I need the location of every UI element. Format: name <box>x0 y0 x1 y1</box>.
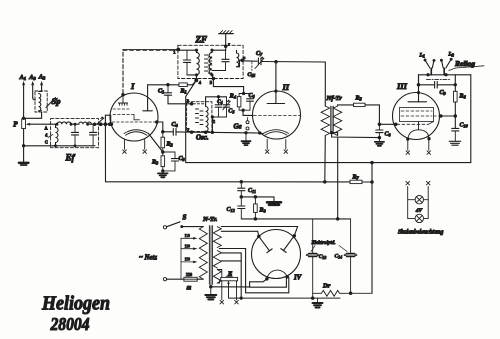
transformer N-Tr heater secondary (zigzag) <box>213 270 221 284</box>
antenna terminal A3 <box>28 74 36 100</box>
wire tuning node down to lower bus <box>104 124 106 182</box>
svg-text:S: S <box>183 214 187 222</box>
svg-text:C4: C4 <box>172 122 179 128</box>
svg-text:d: d <box>45 133 47 138</box>
tube III cathode (dome) <box>406 122 431 141</box>
AVC divider line from terminal 4 down <box>186 80 197 162</box>
wire A1 line down through P to ground <box>23 129 25 162</box>
node below R3 <box>161 169 164 172</box>
speaker pins L2 <box>440 52 454 69</box>
svg-text:A2: A2 <box>38 74 46 81</box>
transformer Nf-Tr primary (zigzag) <box>321 106 329 136</box>
tube III heater pins with x marks <box>406 139 431 155</box>
svg-text:R2: R2 <box>166 142 174 148</box>
svg-text:III: III <box>396 81 408 91</box>
node tube III grid entry <box>394 123 398 127</box>
rectifier anode right <box>281 234 296 252</box>
tube III envelope <box>393 93 440 140</box>
node screen junction <box>161 130 165 134</box>
svg-text:R7: R7 <box>352 175 360 181</box>
svg-text:Elektrolytd.: Elektrolytd. <box>311 240 336 246</box>
resistor R7 <box>350 175 362 184</box>
svg-text:A3: A3 <box>28 74 36 81</box>
electrolytic C13 line <box>306 219 326 298</box>
svg-text:L2: L2 <box>448 52 454 58</box>
wire pot legs to heater x marks <box>220 281 238 304</box>
svg-text:C3: C3 <box>179 156 186 162</box>
resistor R3 <box>151 156 165 171</box>
capacitor C4 (mixer injection) <box>163 122 179 135</box>
wire cathode bus to tube II <box>176 127 261 135</box>
svg-text:Si: Si <box>187 286 192 292</box>
capacitor C-zf2 <box>212 50 229 70</box>
svg-text:C15: C15 <box>248 72 256 78</box>
svg-text:R5: R5 <box>355 96 363 102</box>
capacitor C11 (coupling to heater rail) <box>238 182 256 197</box>
svg-text:A1: A1 <box>19 74 27 81</box>
svg-text:Heliogen: Heliogen <box>41 293 110 315</box>
choke Dr <box>313 283 372 297</box>
coil L-zf2 <box>209 50 212 75</box>
antenna coil Sp (dashed box with winding and trimmer arrow) <box>35 91 59 112</box>
resistor R2 <box>161 132 174 156</box>
tube I grids (dashed) <box>112 109 157 122</box>
svg-text:N-Tr.: N-Tr. <box>202 216 218 223</box>
svg-text:C1: C1 <box>158 89 164 95</box>
rectifier tube IV envelope <box>252 230 301 279</box>
wire screen-grid exit to divider <box>155 120 163 132</box>
svg-text:C: C <box>45 140 48 145</box>
svg-text:C8: C8 <box>385 132 392 138</box>
wire speaker feed right side down to rail <box>470 75 472 163</box>
capacitor C9 (feedback) <box>419 82 456 96</box>
svg-text:C7: C7 <box>256 51 263 57</box>
transformer N-Tr primary (zigzag) <box>199 227 207 280</box>
resistor R5 <box>354 96 366 107</box>
wire core bottom to ground <box>209 285 213 295</box>
svg-text:R4: R4 <box>229 94 237 100</box>
filter box Ef (dashed) <box>51 119 99 148</box>
capacitor C6 <box>243 93 255 110</box>
wire AVC horizontal (solid+dash doubled) <box>123 49 178 52</box>
label Rellog <box>449 59 484 71</box>
svg-text:C13: C13 <box>319 254 327 260</box>
svg-text:2: 2 <box>213 119 215 124</box>
tube II anode <box>267 62 284 104</box>
wire B+ riser (rails to choke output) <box>371 163 373 294</box>
svg-text:Ef: Ef <box>65 153 76 163</box>
wire HV top to right anode <box>221 227 297 236</box>
coil L-zf1 <box>197 50 200 75</box>
wire secondary top to R5 <box>338 105 354 106</box>
node tuning junction row (grid feed) <box>93 122 112 126</box>
wire osc tank top <box>206 97 227 104</box>
ground (ZF top, hatched) <box>219 31 233 34</box>
node terminal s <box>240 55 245 62</box>
electrolytic C14 line <box>335 219 357 293</box>
svg-text:Sp: Sp <box>52 96 61 106</box>
speaker plug contacts <box>431 68 444 75</box>
wire R6 line (speaker bus down to grid node) <box>454 75 458 129</box>
svg-text:Ge: Ge <box>234 123 242 131</box>
svg-text:110: 110 <box>185 234 190 238</box>
wire fuse to primary <box>197 278 203 280</box>
potentiometer P <box>13 119 25 129</box>
wire core junction to filament loop <box>211 286 250 288</box>
wire R7 to B+ riser <box>362 180 374 184</box>
transformer N-Tr core <box>209 226 212 285</box>
tube II grid (dashed) <box>254 114 301 116</box>
svg-text:L1: L1 <box>419 53 425 59</box>
wire C11 node to ground bar <box>241 195 274 201</box>
transformer N-Tr HV secondary (zigzag) <box>213 227 221 248</box>
svg-text:C9: C9 <box>440 90 447 96</box>
tube III anode <box>408 75 427 102</box>
node junction at lower link <box>22 144 25 147</box>
svg-text:Nf-Tr: Nf-Tr <box>326 95 343 102</box>
tube III grid wires (dashed) <box>397 111 441 124</box>
tube I cathode (double arc) <box>124 130 149 135</box>
ground (tube II cathode) <box>242 133 251 145</box>
svg-text:C5: C5 <box>228 109 235 115</box>
tube I top-cap grid <box>118 93 127 105</box>
wire P wiper to Ef box (with arrowhead at pot) <box>26 123 51 126</box>
svg-text:4V: 4V <box>416 207 423 214</box>
node C8 top <box>378 123 382 127</box>
tube II envelope <box>253 91 301 139</box>
wire osc grid (dashed inside box) <box>193 103 205 105</box>
coil L-Ef-2 (horizontal) <box>79 122 92 124</box>
wire Nf-Tr secondary bottom to C8 foot <box>330 131 380 138</box>
svg-text:R8: R8 <box>259 208 267 214</box>
wire HV tap to left anode <box>221 231 258 236</box>
capacitor C1 <box>158 85 172 95</box>
node cathode junction <box>161 150 165 154</box>
wire speaker bus <box>419 73 471 85</box>
wire Sp bottom to P line <box>24 112 42 118</box>
wire ZF tank1 bottom <box>187 49 202 85</box>
capacitor C12 <box>227 197 245 219</box>
pickup jacks Ge <box>234 118 250 131</box>
wire terminal s to C7 <box>242 60 257 62</box>
wire heater rail (lower, with R7) <box>106 180 351 184</box>
svg-text:28004: 28004 <box>50 314 90 334</box>
svg-text:C4: C4 <box>217 99 223 105</box>
svg-text:Osc.: Osc. <box>196 134 209 142</box>
resistor R1 <box>179 83 187 95</box>
lamp feeder wires with x marks <box>406 181 430 218</box>
ground (transformer) <box>205 295 216 300</box>
core Osc (lamination dashes) <box>196 109 204 125</box>
transformer Nf-Tr core <box>331 106 334 132</box>
wire grid bridge <box>105 115 110 124</box>
wire C7 to anode riser of II and Nf-Tr <box>261 60 325 64</box>
wire ZF tank2 bottom to terminal 5 <box>210 73 215 85</box>
node terminal 1 <box>173 48 180 55</box>
svg-text:C6: C6 <box>249 93 256 99</box>
svg-text:I: I <box>130 81 135 91</box>
capacitor C7 (variable) <box>255 51 264 69</box>
svg-text:A: A <box>45 126 48 131</box>
svg-text:220: 220 <box>186 272 192 277</box>
filter box ZF (dashed) <box>178 45 243 78</box>
svg-text:IV: IV <box>293 275 302 282</box>
node grid entry <box>110 123 113 126</box>
mains switch S <box>163 214 203 229</box>
ground (cathode R3) <box>158 173 168 177</box>
node grid exit <box>439 114 443 118</box>
svg-text:Dr: Dr <box>322 283 331 290</box>
node C11 bottom <box>240 195 244 199</box>
svg-text:P: P <box>13 121 18 129</box>
svg-text:s: s <box>244 55 246 60</box>
wire pot wiper to filament return <box>229 284 341 298</box>
wire Nf-Tr branch down (B+ feed) <box>337 137 339 219</box>
ground (bias bar) <box>267 202 281 205</box>
capacitor C-Ef-1 <box>71 124 78 146</box>
wire grid exit to R6/C10 <box>441 115 456 117</box>
node grid network top <box>242 92 245 95</box>
wire C1 to osc terminal 3 <box>168 95 193 105</box>
capacitor Cv (osc fixed) <box>215 97 222 117</box>
wire bottom link from P line to Ef filter <box>24 145 53 147</box>
resistor R6 <box>454 91 467 102</box>
speaker pins L1 <box>419 53 436 69</box>
capacitor C10 <box>452 123 469 141</box>
svg-text:C12: C12 <box>227 207 236 213</box>
lamp 1 <box>408 196 429 204</box>
coil L-osc <box>206 104 209 132</box>
tube I heater pins with x marks <box>123 139 147 153</box>
capacitor C5 (osc trimmer, arrow) <box>223 97 236 117</box>
wire R5 to tube III grid <box>365 105 396 124</box>
resistor R4 <box>229 94 244 111</box>
wire terminal 5 to grid network <box>213 79 243 94</box>
tube II cathode (double arc) <box>260 130 289 135</box>
svg-text:II: II <box>282 82 290 92</box>
coil L-zf3 (tertiary) <box>237 50 243 66</box>
capacitor C15 (stray, dashed) <box>248 62 256 78</box>
svg-text:C11: C11 <box>248 188 256 194</box>
capacitor C8 <box>376 124 392 141</box>
lamp 2 <box>408 214 429 222</box>
capacitor C-tune (variable, arrow) <box>97 116 104 124</box>
label Elektrolytd. with leaders <box>311 240 348 252</box>
oscillator box Osc (dashed) <box>187 102 212 132</box>
transformer N-Tr mid secondary (zigzag) <box>213 251 221 269</box>
wire Nf-Tr primary bottom down to heater rail <box>324 136 327 182</box>
ground (C10, hatched) <box>449 141 460 145</box>
rectifier anode left <box>257 235 272 253</box>
tube II heater pins with x marks <box>265 139 287 153</box>
wire R1 to ZF terminal 4 <box>187 78 198 84</box>
wire osc tank bottom / tap 2 <box>211 115 227 132</box>
node tank top <box>217 95 220 98</box>
wire B+ raw bus <box>241 217 350 221</box>
wire heater loop to filament (outer) <box>219 249 288 293</box>
svg-text:150: 150 <box>185 258 191 262</box>
wire AVC (dashed) from tube I to ZF box <box>122 50 124 94</box>
svg-text:R1: R1 <box>180 89 187 95</box>
wire cathode lead to R2/R3 junction <box>149 134 163 153</box>
wire Ef top row <box>51 123 95 126</box>
rectifier filament dome <box>265 270 289 281</box>
svg-text:R3: R3 <box>151 160 159 166</box>
wire Ef bottom row <box>53 144 95 147</box>
core ZF (lamination dashes) <box>205 55 212 73</box>
wire filament return loop (inner) <box>250 277 287 287</box>
fuse Si <box>184 272 197 292</box>
svg-text:1: 1 <box>173 50 175 55</box>
coil L-Ef input (vertical, tapped) <box>45 124 58 146</box>
tube I envelope <box>110 93 158 141</box>
capacitor C-Ef-2 <box>90 124 97 146</box>
coil L-Ef-1 (horizontal) <box>57 122 71 124</box>
wire heater winding to pot <box>217 270 222 284</box>
wire winding stub <box>221 260 241 262</box>
antenna terminal A2 <box>38 74 46 92</box>
wire HV center tap down <box>221 253 243 300</box>
wire ZF tank2 top to ground r <box>210 34 230 52</box>
svg-text:C14: C14 <box>335 254 343 260</box>
svg-text:130: 130 <box>185 244 191 248</box>
capacitor C-zf1 <box>183 50 190 75</box>
capacitor C3 (parallel loop) <box>163 152 186 171</box>
hum balance pot E <box>221 271 238 286</box>
node junction at P top <box>22 117 25 120</box>
svg-text:Skalenbeleuchtung: Skalenbeleuchtung <box>398 230 443 236</box>
transformer Nf-Tr secondary (zigzag) <box>333 106 341 136</box>
svg-text:~ Netz: ~ Netz <box>139 254 157 262</box>
node filament return / C13 <box>311 296 315 300</box>
node grid network bottom <box>241 109 244 112</box>
wire chassis rail (upper) <box>186 161 471 165</box>
ground (C8) <box>375 142 384 146</box>
wire grid network to tube II grid <box>243 110 253 115</box>
wire anode line down to Nf-Tr primary <box>324 62 326 106</box>
ground (choke line) <box>313 298 323 307</box>
mains terminal lower <box>163 278 184 281</box>
ground (antenna) <box>19 163 29 165</box>
resistor R8 <box>254 197 267 219</box>
svg-text:C10: C10 <box>460 123 469 129</box>
wire anode to R1 <box>148 83 179 87</box>
svg-text:ZF: ZF <box>195 35 208 45</box>
antenna terminal A1 <box>19 74 27 118</box>
tube III grid box <box>400 108 434 122</box>
tube I anode <box>143 85 153 111</box>
wire ZF tank1 top <box>178 49 196 51</box>
svg-text:R6: R6 <box>459 94 467 100</box>
voltage tap selector <box>181 234 198 279</box>
speaker plug outline (dash-dot) <box>427 79 450 81</box>
